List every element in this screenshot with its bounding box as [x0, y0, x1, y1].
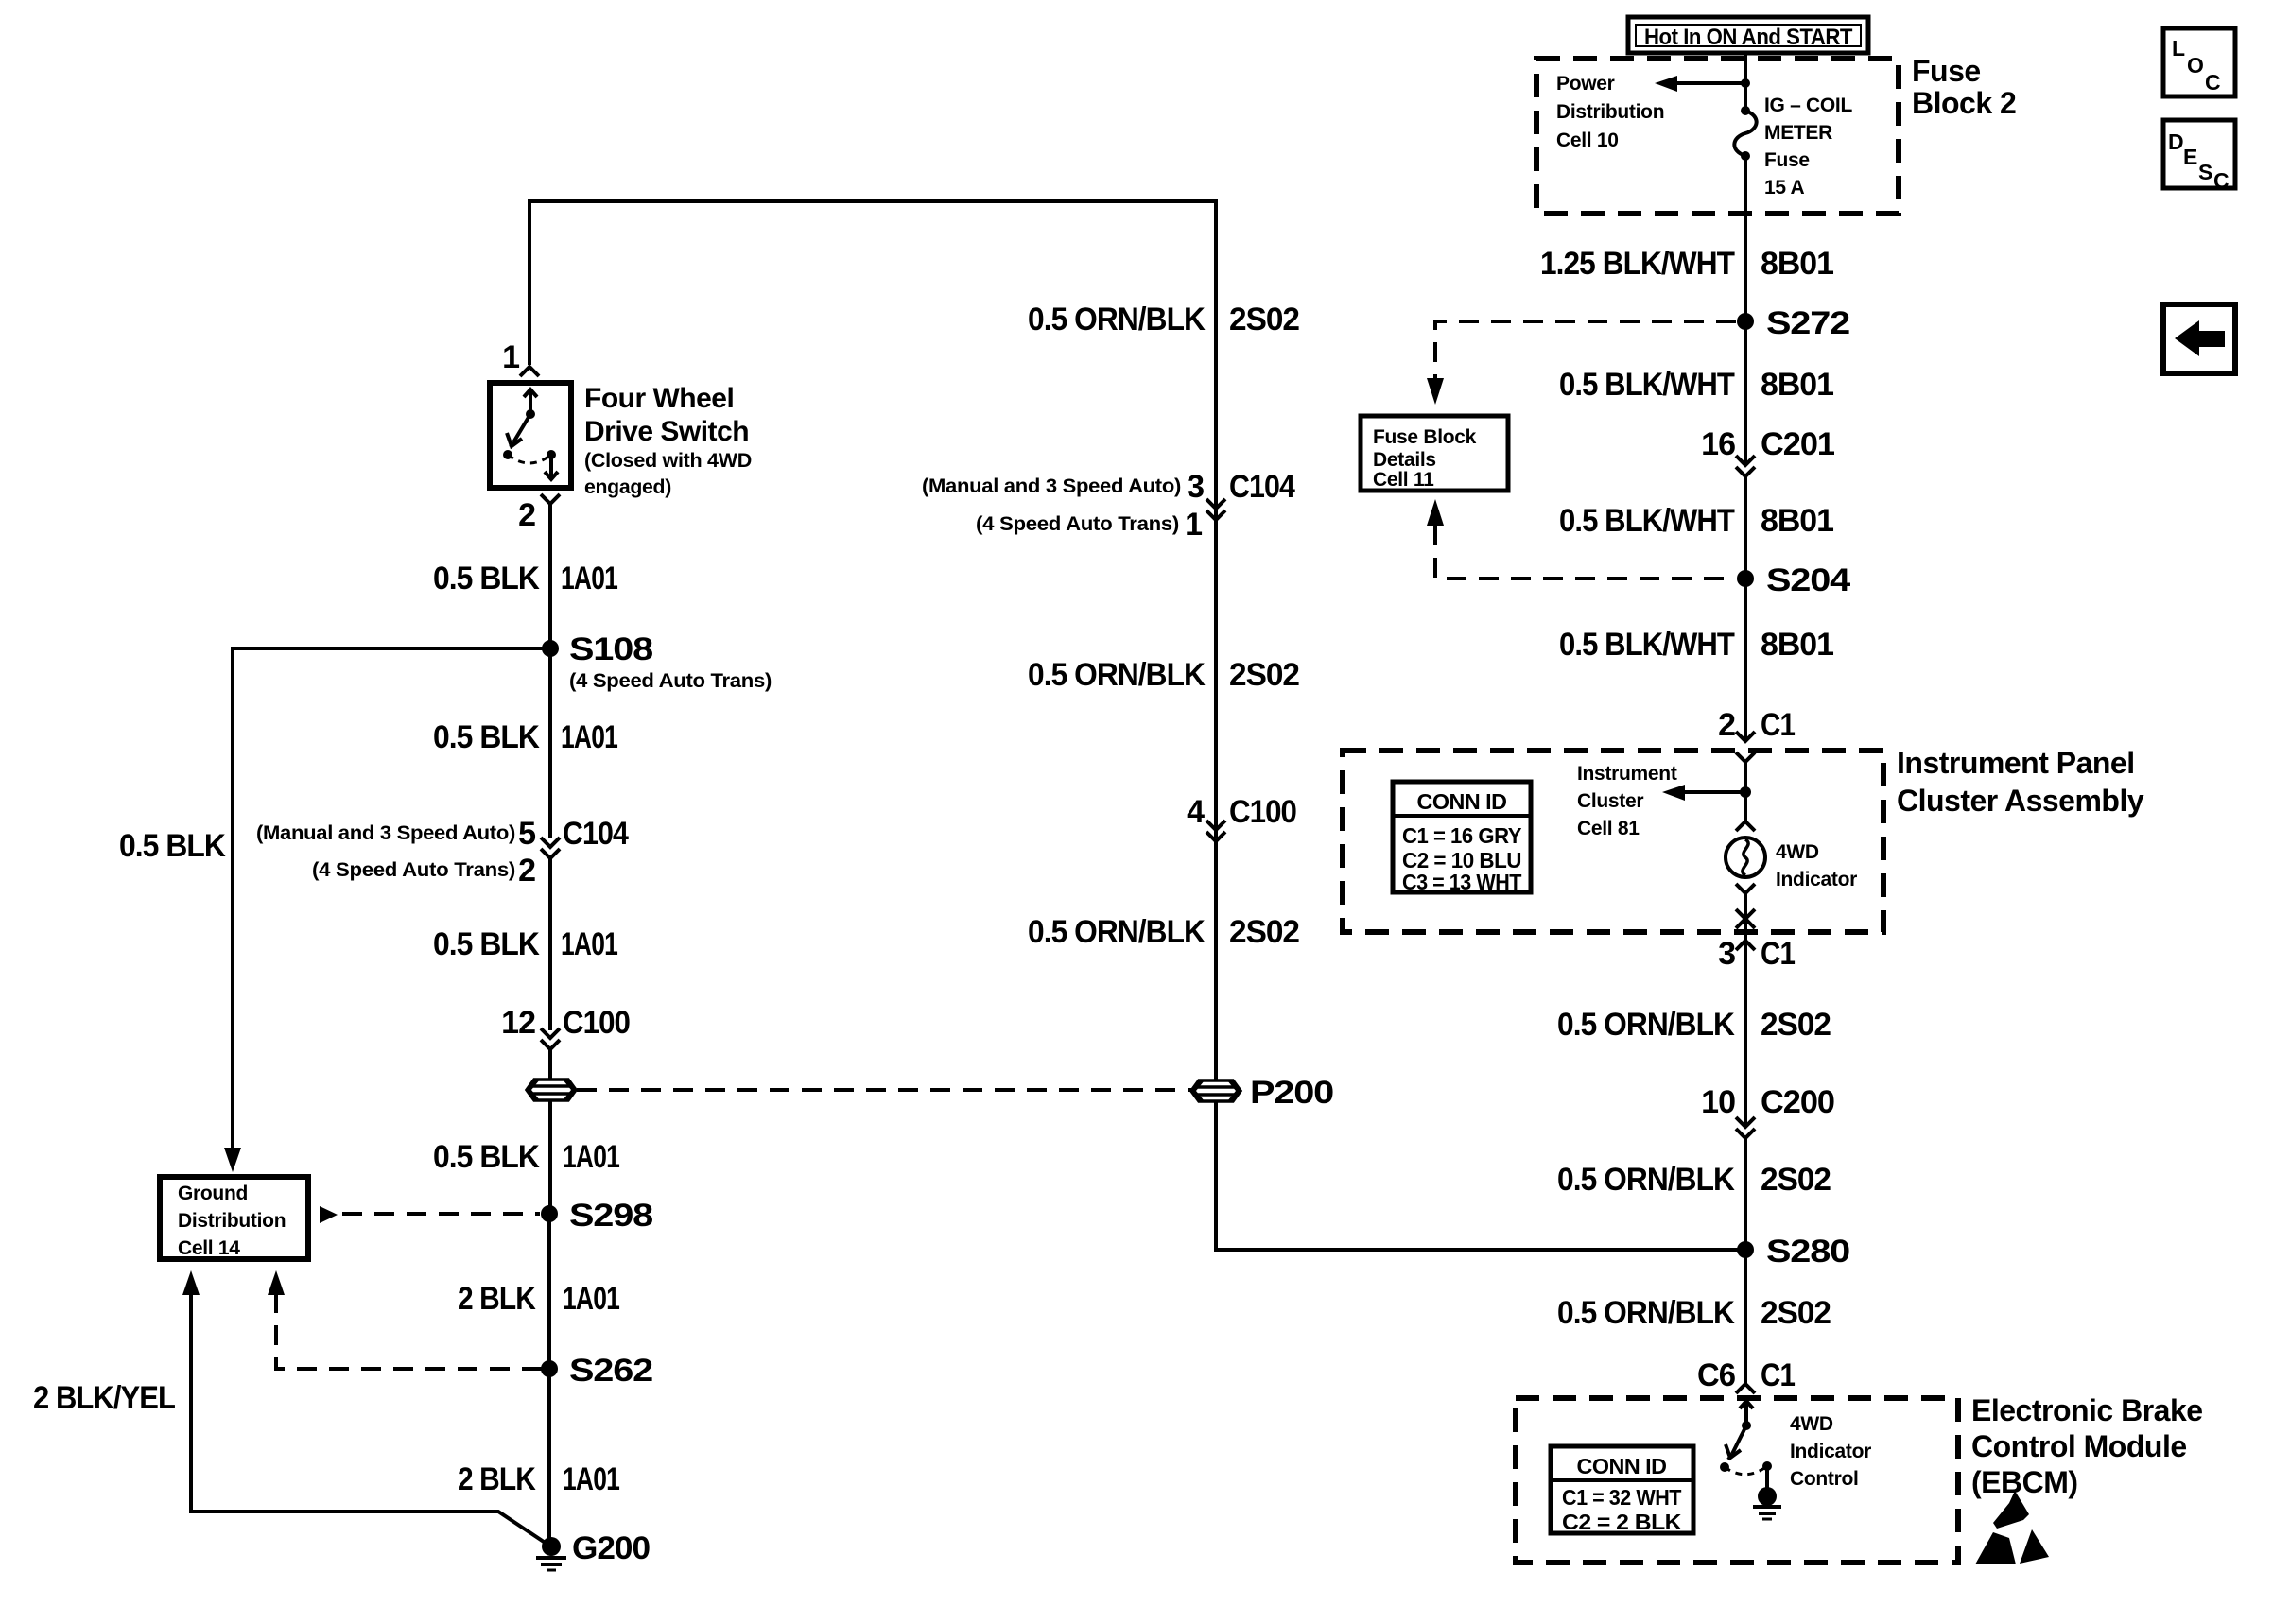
arrow dashed into Ground Distribution box bottom [268, 1270, 285, 1295]
splice S262 dot [541, 1360, 558, 1377]
label 0.5 ORN/BLK 2S02 (C100 to P200) [1028, 914, 1299, 950]
svg-text:0.5 ORN/BLK: 0.5 ORN/BLK [1028, 302, 1206, 337]
label 0.5 BLK 1A01 (P200 to S298) [433, 1139, 619, 1175]
svg-text:S280: S280 [1766, 1234, 1849, 1270]
connector C1 pin 2 label [1718, 707, 1795, 743]
connector chevron at switch pin 1 [520, 367, 539, 376]
svg-text:Hot In ON And START: Hot In ON And START [1644, 25, 1853, 50]
switch movable contact pivot dot [526, 409, 535, 419]
svg-text:S108: S108 [569, 631, 652, 667]
svg-text:5: 5 [518, 816, 535, 852]
svg-text:Instrument: Instrument [1577, 763, 1677, 785]
label 0.5 ORN/BLK 2S02 (C104 to C100) [1028, 657, 1299, 693]
4WD indicator lamp filament [1743, 839, 1748, 875]
svg-text:1A01: 1A01 [563, 1139, 619, 1175]
svg-text:8B01: 8B01 [1761, 503, 1833, 539]
svg-text:3: 3 [1187, 469, 1204, 505]
wire hot box to fuse [1744, 53, 1747, 111]
svg-text:(4 Speed Auto Trans): (4 Speed Auto Trans) [312, 859, 515, 881]
svg-text:C1: C1 [1761, 936, 1795, 972]
connector C6/C1 label [1697, 1357, 1795, 1393]
svg-text:2 BLK: 2 BLK [458, 1281, 536, 1317]
switch left contact dot [503, 450, 512, 459]
ground G200 symbol [536, 1558, 566, 1570]
label Electronic Brake Control Module [1971, 1393, 2203, 1499]
svg-text:0.5 ORN/BLK: 0.5 ORN/BLK [1557, 1007, 1735, 1043]
svg-text:0.5 BLK: 0.5 BLK [433, 926, 540, 962]
fuse element IG-COIL METER 15A [1734, 106, 1756, 161]
label 0.5 BLK/WHT 8B01 (S272 to C201) [1559, 367, 1833, 403]
EBCM switch pivot dot [1742, 1421, 1751, 1430]
svg-text:C100: C100 [1229, 794, 1296, 830]
wire C200 to EBCM [1744, 1138, 1747, 1384]
wire fuse to C201 [1744, 156, 1747, 465]
svg-text:2S02: 2S02 [1761, 1007, 1831, 1043]
svg-text:Cluster: Cluster [1577, 790, 1643, 812]
dashed line between P200 grommets [577, 1088, 1191, 1092]
svg-text:(4 Speed Auto Trans): (4 Speed Auto Trans) [976, 513, 1179, 535]
svg-text:2S02: 2S02 [1761, 1162, 1831, 1198]
Fuse Block Details text [1373, 426, 1477, 491]
wire C201 to instrument cluster [1744, 476, 1747, 741]
CONN ID table (cluster) [1393, 782, 1531, 892]
svg-text:0.5 BLK/WHT: 0.5 BLK/WHT [1559, 627, 1735, 663]
svg-text:1A01: 1A01 [563, 1461, 619, 1497]
wire C100 to P200 (left) [548, 1049, 552, 1080]
svg-text:2S02: 2S02 [1229, 914, 1299, 950]
svg-text:Control Module: Control Module [1971, 1429, 2187, 1463]
Four Wheel Drive Switch box [490, 383, 571, 488]
svg-text:C104: C104 [1229, 469, 1295, 505]
DESC icon box [2163, 120, 2235, 193]
svg-text:Electronic Brake: Electronic Brake [1971, 1393, 2203, 1427]
label 0.5 BLK 1A01 (C104 to C100) [433, 926, 617, 962]
svg-text:C1: C1 [1761, 1357, 1795, 1393]
connector C104 mid symbol [1206, 499, 1225, 520]
svg-text:METER: METER [1764, 122, 1832, 144]
svg-text:C100: C100 [563, 1005, 630, 1041]
EBCM switch blade [1726, 1425, 1746, 1460]
EBCM switch arrow up [1740, 1401, 1753, 1425]
label 0.5 ORN/BLK 2S02 (C1 to C200) [1557, 1007, 1831, 1043]
EBCM internal ground ball [1758, 1487, 1777, 1506]
svg-text:D: D [2168, 130, 2183, 154]
CONN ID table EBCM rows [1562, 1485, 1682, 1534]
label 0.5 BLK 1A01 (switch to S108) [433, 561, 617, 596]
back arrow icon box [2163, 304, 2235, 373]
wire P200 down and right to S280 [1216, 1100, 1745, 1250]
chevron above 4WD indicator lamp [1736, 821, 1755, 831]
dashed reference S272 to Fuse Block Details [1435, 321, 1736, 378]
svg-text:Power: Power [1556, 73, 1615, 95]
label 4WD Indicator Control [1790, 1413, 1871, 1490]
Power Distribution text [1556, 73, 1664, 151]
junction dot instrument cluster tap [1740, 786, 1751, 798]
svg-text:IG – COIL: IG – COIL [1764, 95, 1852, 116]
label Instrument Panel Cluster Assembly [1897, 746, 2144, 818]
connector C1 pin 3 label [1718, 936, 1795, 972]
svg-text:2 BLK: 2 BLK [458, 1461, 536, 1497]
svg-text:C6: C6 [1697, 1357, 1735, 1393]
arrow 2 BLK/YEL into Ground Distribution box bottom [182, 1270, 200, 1295]
svg-text:1A01: 1A01 [563, 1281, 619, 1317]
dashed reference S298 arrow [320, 1206, 338, 1223]
svg-text:engaged): engaged) [584, 476, 671, 498]
svg-text:8B01: 8B01 [1761, 246, 1833, 282]
Instrument Panel Cluster Assembly dashed box [1343, 751, 1883, 932]
label Four Wheel Drive Switch [584, 383, 749, 447]
label 0.5 BLK 1A01 (S108 to C104) [433, 719, 617, 755]
svg-text:G200: G200 [572, 1530, 650, 1566]
connector chevron at EBCM top [1736, 1384, 1755, 1393]
svg-text:0.5 ORN/BLK: 0.5 ORN/BLK [1557, 1295, 1735, 1331]
label closed with 4WD engaged [584, 450, 752, 498]
svg-text:2: 2 [1718, 707, 1735, 743]
label 1.25 BLK/WHT 8B01 [1540, 246, 1833, 282]
wire lamp to cluster bottom [1744, 893, 1747, 941]
svg-text:0.5 ORN/BLK: 0.5 ORN/BLK [1028, 914, 1206, 950]
svg-text:8B01: 8B01 [1761, 367, 1833, 403]
svg-text:L: L [2172, 36, 2185, 60]
svg-text:2S02: 2S02 [1229, 657, 1299, 693]
svg-text:Ground: Ground [178, 1183, 248, 1204]
label 2 BLK 1A01 (S298 to S262) [458, 1281, 619, 1317]
svg-text:2S02: 2S02 [1229, 302, 1299, 337]
svg-text:Fuse: Fuse [1764, 149, 1810, 171]
svg-text:(Manual and 3 Speed Auto): (Manual and 3 Speed Auto) [922, 475, 1181, 497]
svg-text:0.5 ORN/BLK: 0.5 ORN/BLK [1557, 1162, 1735, 1198]
svg-text:15 A: 15 A [1764, 177, 1805, 199]
wire pin2 to S108 [548, 502, 552, 648]
svg-text:1.25 BLK/WHT: 1.25 BLK/WHT [1540, 246, 1735, 282]
connector C200 pin 10 label [1701, 1084, 1834, 1120]
svg-text:Control: Control [1790, 1468, 1859, 1490]
Ground Distribution text [178, 1183, 286, 1259]
arrow to Power Distribution [1655, 76, 1745, 92]
connector chevron at switch pin 2 [541, 494, 560, 504]
EBCM dashed box [1516, 1398, 1958, 1563]
svg-text:(EBCM): (EBCM) [1971, 1465, 2078, 1499]
splice S280 dot [1737, 1241, 1754, 1258]
label 0.5 ORN/BLK 2S02 (top) [1028, 302, 1299, 337]
switch pin 2 stem with arrow [545, 455, 558, 479]
label 0.5 BLK/WHT 8B01 (S204 to C1) [1559, 627, 1833, 663]
ground G200 dot [542, 1537, 561, 1556]
svg-text:0.5 ORN/BLK: 0.5 ORN/BLK [1028, 657, 1206, 693]
Ground Distribution box [160, 1177, 308, 1259]
Fuse Block 2 dashed box [1536, 59, 1899, 214]
svg-text:(Closed with 4WD: (Closed with 4WD [584, 450, 752, 472]
svg-text:Cell 81: Cell 81 [1577, 818, 1640, 839]
connector chevron inside cluster top [1736, 752, 1755, 762]
wire C104 to C100 (left) [548, 858, 552, 1030]
svg-text:Cell 11: Cell 11 [1373, 469, 1434, 491]
switch contact arrow up (pin 1 side) [524, 389, 537, 414]
label 0.5 BLK/WHT 8B01 (C201 to S204) [1559, 503, 1833, 539]
connector C104 left symbol [541, 838, 560, 858]
splice S204 dot [1737, 570, 1754, 587]
connector C200 symbol [1736, 1117, 1755, 1138]
svg-text:2: 2 [518, 853, 535, 889]
svg-text:Block 2: Block 2 [1912, 86, 2016, 120]
wire top horizontal run [528, 199, 1218, 203]
svg-text:4WD: 4WD [1776, 841, 1819, 863]
arrow to Instrument Cluster Cell 81 [1662, 785, 1745, 801]
svg-text:Cluster Assembly: Cluster Assembly [1897, 784, 2144, 818]
splice S108 dot [542, 640, 559, 657]
svg-text:S298: S298 [569, 1198, 652, 1234]
wire S108 branch left and down [233, 648, 550, 1148]
svg-text:3: 3 [1718, 936, 1735, 972]
CONN ID table (EBCM) [1551, 1446, 1693, 1533]
arrow dashed into Fuse Block Details bottom [1427, 499, 1444, 526]
arrow into Ground Distribution box top [224, 1148, 241, 1172]
svg-text:C: C [2205, 70, 2220, 95]
arrow dashed into Fuse Block Details top [1427, 378, 1444, 405]
splice S272 dot [1737, 313, 1754, 330]
svg-text:C1: C1 [1761, 707, 1795, 743]
svg-text:2S02: 2S02 [1761, 1295, 1831, 1331]
svg-text:8B01: 8B01 [1761, 627, 1833, 663]
svg-text:4WD: 4WD [1790, 1413, 1833, 1435]
wire cluster top to lamp [1744, 762, 1747, 821]
svg-text:C104: C104 [563, 816, 629, 852]
switch movable contact blade [507, 414, 530, 447]
svg-text:2: 2 [518, 497, 535, 533]
svg-text:C3 = 13 WHT: C3 = 13 WHT [1402, 870, 1521, 894]
connector C201 symbol [1736, 456, 1755, 476]
svg-text:Distribution: Distribution [1556, 101, 1664, 123]
splice S298 dot [541, 1205, 558, 1222]
svg-text:C: C [2213, 168, 2229, 193]
dashed reference line to S298 [342, 1212, 540, 1216]
label 0.5 ORN/BLK 2S02 (C200 to S280) [1557, 1162, 1831, 1198]
switch right contact dot [547, 450, 556, 459]
EBCM switch dashed travel arc [1725, 1466, 1767, 1475]
svg-text:Distribution: Distribution [178, 1210, 286, 1232]
svg-text:C1 = 32 WHT: C1 = 32 WHT [1562, 1485, 1681, 1510]
svg-text:1A01: 1A01 [561, 926, 617, 962]
svg-text:C201: C201 [1761, 426, 1834, 462]
svg-text:0.5 BLK/WHT: 0.5 BLK/WHT [1559, 367, 1735, 403]
label Fuse Block 2 [1912, 54, 2016, 120]
EBCM internal ground symbol [1753, 1507, 1781, 1519]
wire S262 to G200 [547, 1369, 551, 1543]
svg-text:Fuse: Fuse [1912, 54, 1981, 88]
connector X at cluster bottom [1736, 909, 1755, 928]
chevron below 4WD indicator lamp [1736, 884, 1755, 893]
Fuse Block Details box [1361, 416, 1508, 491]
svg-text:(4 Speed Auto Trans): (4 Speed Auto Trans) [569, 670, 772, 692]
wire pin1 vertical to Four Wheel Drive Switch [528, 201, 531, 365]
wire C1 pin3 to C200 [1744, 941, 1747, 1127]
svg-text:O: O [2187, 53, 2203, 78]
svg-text:P200: P200 [1250, 1075, 1333, 1111]
svg-text:S: S [2198, 160, 2212, 184]
connector C1 pin 2 symbol [1736, 732, 1755, 741]
svg-text:Four Wheel: Four Wheel [584, 383, 734, 414]
connector C100 mid symbol [1206, 821, 1225, 841]
wire P200 to S298 [548, 1100, 552, 1214]
svg-text:Details: Details [1373, 449, 1436, 471]
svg-text:10: 10 [1701, 1084, 1735, 1120]
svg-text:S204: S204 [1766, 562, 1850, 598]
label 0.5 ORN/BLK 2S02 (S280 to EBCM) [1557, 1295, 1831, 1331]
svg-text:Drive Switch: Drive Switch [584, 416, 749, 447]
svg-text:0.5 BLK/WHT: 0.5 BLK/WHT [1559, 503, 1735, 539]
svg-text:(Manual and 3 Speed Auto): (Manual and 3 Speed Auto) [256, 822, 515, 844]
fuse text IG-COIL METER Fuse 15 A [1764, 95, 1852, 199]
wire top to C104 (middle) [1214, 201, 1218, 838]
4WD indicator lamp circle [1726, 838, 1765, 877]
svg-text:4: 4 [1187, 794, 1205, 830]
dashed reference to S204 [1435, 526, 1734, 579]
svg-text:CONN ID: CONN ID [1417, 789, 1507, 814]
svg-text:0.5 BLK: 0.5 BLK [119, 828, 226, 864]
svg-text:Indicator: Indicator [1776, 869, 1857, 890]
svg-text:1: 1 [1185, 507, 1202, 543]
label 4WD Indicator (lamp) [1776, 841, 1857, 890]
ESD sensitive symbol [1975, 1491, 2049, 1564]
svg-text:Cell 10: Cell 10 [1556, 130, 1619, 151]
EBCM switch left contact dot [1720, 1462, 1729, 1472]
splice P200 left grommet symbol [527, 1080, 576, 1100]
svg-text:1A01: 1A01 [561, 719, 617, 755]
svg-text:1: 1 [502, 339, 519, 375]
svg-text:CONN ID: CONN ID [1577, 1454, 1667, 1478]
svg-text:C1 = 16 GRY: C1 = 16 GRY [1402, 823, 1521, 848]
connector C100 left symbol [541, 1028, 560, 1049]
svg-text:12: 12 [501, 1005, 535, 1041]
dashed reference line from S262 [276, 1295, 542, 1369]
svg-text:0.5 BLK: 0.5 BLK [433, 1139, 540, 1175]
Hot In ON And START box [1628, 17, 1868, 53]
CONN ID table cluster rows [1402, 823, 1521, 894]
svg-text:E: E [2183, 145, 2197, 169]
svg-text:Indicator: Indicator [1790, 1441, 1871, 1462]
svg-text:C2 = 2 BLK: C2 = 2 BLK [1562, 1510, 1682, 1534]
splice P200 mid grommet symbol [1191, 1080, 1241, 1101]
EBCM internal ground stem [1765, 1466, 1769, 1489]
LOC icon box [2163, 28, 2235, 96]
wire C100 to P200 (middle) [1214, 841, 1218, 1080]
svg-text:Cell 14: Cell 14 [178, 1237, 240, 1259]
svg-text:S272: S272 [1766, 305, 1849, 341]
svg-text:2 BLK/YEL: 2 BLK/YEL [33, 1380, 175, 1416]
label 2 BLK 1A01 (S262 to G200) [458, 1461, 619, 1497]
svg-text:C200: C200 [1761, 1084, 1834, 1120]
wire S298 to S262 [547, 1214, 551, 1369]
svg-text:Instrument Panel: Instrument Panel [1897, 746, 2135, 780]
switch dashed travel arc [508, 455, 551, 463]
connector C1 pin 3 symbol with up arrow [1736, 941, 1755, 950]
svg-text:S262: S262 [569, 1353, 652, 1389]
svg-text:16: 16 [1701, 426, 1735, 462]
svg-text:1A01: 1A01 [561, 561, 617, 596]
svg-text:Fuse Block: Fuse Block [1373, 426, 1477, 448]
wire S108 to C104 [548, 648, 552, 838]
svg-text:0.5 BLK: 0.5 BLK [433, 561, 540, 596]
junction dot at power distribution tap [1741, 78, 1750, 88]
Instrument Cluster Cell 81 text [1577, 763, 1677, 839]
svg-text:0.5 BLK: 0.5 BLK [433, 719, 540, 755]
wire 2 BLK/YEL to G200 [191, 1295, 544, 1542]
EBCM switch right contact dot [1762, 1461, 1772, 1471]
